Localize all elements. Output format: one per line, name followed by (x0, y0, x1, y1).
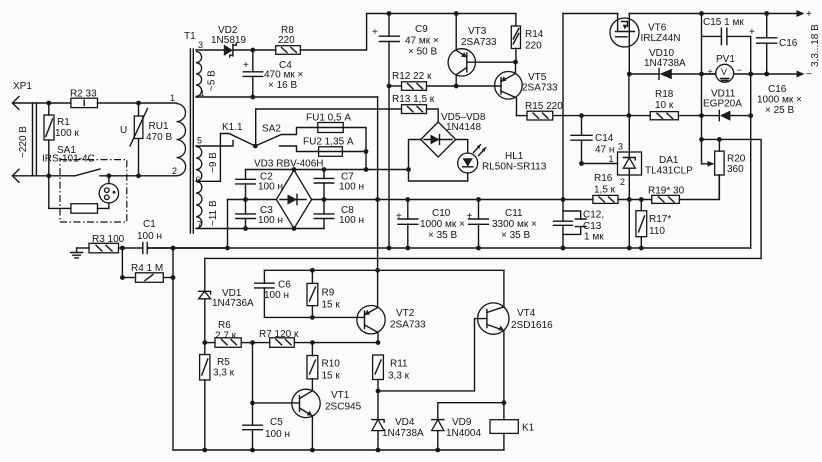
svg-text:100 н: 100 н (137, 231, 162, 242)
wire R18 left segment (629, 115, 650, 117)
svg-text:+: + (467, 211, 473, 222)
svg-text:2,7 к: 2,7 к (215, 331, 237, 342)
svg-text:~5 В: ~5 В (207, 70, 218, 91)
led HL1 (458, 145, 547, 173)
wire SA1 feed (49, 176, 71, 209)
svg-text:C15 1 мк: C15 1 мк (703, 17, 744, 28)
wire VD9 top link (438, 403, 504, 420)
svg-text:−: − (806, 69, 812, 80)
svg-text:360: 360 (727, 164, 744, 175)
node R6 R7 junction (250, 340, 255, 345)
svg-text:R12 22 к: R12 22 к (392, 71, 432, 82)
zener VD4 (372, 391, 424, 450)
resistor R5 (200, 355, 235, 451)
node SA2 common (253, 144, 258, 149)
transistor VT4 (478, 303, 554, 334)
node R17 bottom (639, 246, 644, 251)
resistor R12 (389, 71, 456, 90)
svg-text:VT6: VT6 (648, 23, 667, 34)
svg-text:1N5819: 1N5819 (211, 35, 246, 46)
svg-text:+: + (372, 27, 378, 38)
node VT3 collector junction (454, 84, 459, 89)
svg-text:C9: C9 (415, 24, 428, 35)
node VT1 emitter rail (310, 448, 315, 453)
svg-text:220: 220 (525, 41, 542, 52)
svg-text:1,5 к: 1,5 к (594, 185, 616, 196)
wire VT4 base link (378, 319, 487, 391)
capacitor C6 (255, 270, 292, 317)
svg-text:3300 мк ×: 3300 мк × (492, 219, 537, 230)
node C14 top (579, 113, 584, 118)
node R17 top (639, 197, 644, 202)
wire VD5 left vertex loop (409, 140, 468, 182)
svg-text:R5: R5 (217, 357, 230, 368)
regulator DA1 (609, 142, 694, 188)
node R7 right junction (376, 340, 381, 345)
wire pin3 row (196, 49, 224, 51)
node C9 R12 junction (387, 84, 392, 89)
resistor R4 (122, 263, 173, 282)
svg-text:IRLZ44N: IRLZ44N (641, 33, 681, 44)
rectifier VD3 (254, 159, 323, 229)
svg-text:100 н: 100 н (339, 215, 364, 226)
svg-text:R13 1,5 к: R13 1,5 к (392, 94, 435, 105)
svg-text:× 16 В: × 16 В (268, 80, 298, 91)
svg-text:× 25 В: × 25 В (765, 105, 795, 116)
node VD11 right (748, 113, 753, 118)
resistor R1 (44, 103, 79, 176)
resistor R8 (276, 14, 367, 55)
svg-text:R19* 30: R19* 30 (648, 186, 685, 197)
svg-text:C5: C5 (270, 417, 283, 428)
svg-text:100 н: 100 н (339, 182, 364, 193)
capacitor C13 (563, 211, 604, 243)
wire mains cord pair (33, 103, 37, 176)
node VD4 bottom rail (376, 448, 381, 453)
capacitor C2 (236, 170, 283, 200)
node DA1 pin2 on rail (627, 197, 632, 202)
wire C6R9 top row (264, 269, 504, 271)
node C3 bottom (243, 226, 248, 231)
svg-text:R15 220: R15 220 (525, 101, 563, 112)
wire DA1 pin2 riser (628, 175, 630, 248)
transformer T1 (170, 31, 219, 233)
wire x750 riser (750, 36, 752, 248)
node R10 top (310, 340, 315, 345)
svg-text:R18: R18 (655, 89, 674, 100)
wire top rail right segment (629, 13, 800, 15)
wire pin1 row (139, 102, 177, 104)
connector XP1 label (13, 81, 32, 92)
svg-text:1000 мк ×: 1000 мк × (757, 95, 802, 106)
node R6 left (202, 340, 207, 345)
svg-text:2: 2 (620, 177, 625, 187)
node R5 bottom rail (202, 448, 207, 453)
svg-text:R1: R1 (57, 117, 70, 128)
svg-text:XP1: XP1 (13, 81, 32, 92)
svg-text:~9 В: ~9 В (208, 152, 219, 173)
svg-text:100 н: 100 н (265, 429, 290, 440)
contact K1.1 (220, 122, 255, 181)
wire x204 left branch (204, 258, 206, 291)
wire DA1 pin1 (582, 163, 618, 165)
svg-text:C14: C14 (595, 133, 614, 144)
voltmeter PV1 (702, 54, 751, 82)
capacitor C14 (571, 116, 614, 164)
resistor R13 (392, 94, 438, 122)
node x227 on 248 (225, 246, 230, 251)
wire x701 riser (701, 36, 703, 139)
node RU1 bottom junction (136, 173, 141, 178)
capacitor C7 (314, 170, 364, 200)
svg-text:R14: R14 (525, 29, 544, 40)
node C16 top (764, 11, 769, 16)
svg-text:+: + (396, 211, 402, 222)
svg-text:470 мк ×: 470 мк × (264, 70, 303, 81)
resistor R15 (517, 101, 629, 120)
wire DA1 pin3 riser (628, 116, 630, 152)
rectifier VD5-VD8 (421, 112, 486, 157)
mosfet VT6 (610, 14, 681, 75)
svg-text:3,3 к: 3,3 к (213, 368, 235, 379)
svg-text:× 35 В: × 35 В (501, 230, 531, 241)
node C10 bottom (405, 246, 410, 251)
svg-text:C1: C1 (143, 219, 156, 230)
diode VD11 (703, 89, 751, 121)
svg-text:15 к: 15 к (322, 371, 341, 382)
resistor R6 (205, 320, 253, 347)
node C14 bottom junction (579, 161, 584, 166)
diode VD2 (211, 25, 276, 57)
svg-text:+: + (243, 60, 249, 71)
connector XP1 pin N arrow (12, 169, 19, 182)
node C7C8 mid (322, 197, 327, 202)
node R9 top (310, 268, 315, 273)
svg-text:C16: C16 (779, 38, 798, 49)
svg-text:R7 120 к: R7 120 к (259, 329, 299, 340)
svg-text:C6: C6 (278, 280, 291, 291)
resistor R16 (593, 173, 618, 203)
node SA1 lamp junction (107, 173, 112, 178)
wire R20 top row to right riser (702, 139, 762, 258)
svg-text:2SA733: 2SA733 (461, 37, 497, 48)
capacitor C4 (243, 50, 303, 97)
svg-text:RL50N-SR113: RL50N-SR113 (482, 162, 547, 173)
zener VD1 (199, 288, 254, 355)
wire N mains (13, 175, 75, 177)
svg-text:V: V (721, 67, 727, 77)
svg-text:+: + (806, 9, 812, 20)
resistor R3 (77, 234, 143, 253)
node R20 wiper riser (699, 137, 704, 142)
svg-text:K1.1: K1.1 (222, 122, 243, 133)
svg-text:R16: R16 (594, 173, 613, 184)
svg-text:R11: R11 (390, 359, 408, 370)
capacitor C12 (554, 200, 605, 249)
svg-text:1: 1 (609, 154, 614, 164)
connector XP1 pin L arrow (12, 97, 19, 110)
node R9 bottom (310, 315, 315, 320)
wire output plus arrow (797, 9, 813, 20)
svg-text:3: 3 (198, 40, 203, 50)
svg-text:VT3: VT3 (468, 26, 487, 37)
wire VD10 pin3 riser (628, 74, 630, 116)
wire C5 riser (252, 343, 254, 450)
node VD9 bottom rail (435, 448, 440, 453)
wire VT2 base row (264, 316, 364, 318)
svg-text:C10: C10 (432, 208, 451, 219)
svg-text:1N4004: 1N4004 (446, 428, 481, 439)
wire pin6 row (196, 180, 220, 182)
node DA1 pin2 rail248 (627, 246, 632, 251)
label output voltage (810, 24, 821, 67)
potentiometer R20 (702, 139, 746, 199)
resistor SA1 lamp ballast (71, 203, 109, 213)
svg-text:R20: R20 (727, 154, 746, 165)
wire SA2 lower contact (280, 146, 319, 152)
node R11 bottom junction (376, 389, 381, 394)
svg-text:1N4148: 1N4148 (446, 122, 481, 133)
capacitor C10 (396, 200, 465, 249)
resistor R18 (650, 89, 719, 120)
node FU output (364, 149, 369, 154)
svg-text:100 н: 100 н (258, 215, 283, 226)
transistor VT3 (448, 14, 515, 87)
switch SA2 (255, 124, 317, 147)
svg-text:VD3 RBV-406H: VD3 RBV-406H (254, 159, 323, 170)
svg-text:R9: R9 (322, 288, 335, 299)
svg-text:1N4736A: 1N4736A (212, 298, 254, 309)
svg-text:R10: R10 (322, 359, 341, 370)
svg-text:HL1: HL1 (505, 151, 524, 162)
svg-text:DA1: DA1 (659, 155, 679, 166)
svg-text:1N4738A: 1N4738A (644, 58, 686, 69)
wire AC rail y169 (246, 169, 409, 171)
svg-text:IRS-101-4C: IRS-101-4C (42, 154, 95, 165)
node R14 bottom (513, 60, 518, 65)
svg-text:VT5: VT5 (528, 72, 547, 83)
node R20 top (717, 137, 722, 142)
svg-text:VT4: VT4 (517, 308, 536, 319)
node VD3 bottom vertex (292, 226, 297, 231)
node AC rail to VD5 loop (406, 167, 411, 172)
svg-text:VT2: VT2 (396, 308, 415, 319)
capacitor C8 (314, 200, 364, 229)
relay K1 (490, 420, 535, 450)
capacitor C5 (243, 417, 290, 440)
capacitor C11 (467, 200, 538, 249)
wire VT4 collector riser (503, 270, 505, 307)
svg-text:2SA733: 2SA733 (390, 320, 426, 331)
svg-text:3: 3 (618, 142, 623, 152)
node SA1 left junction (46, 173, 51, 178)
resistor R10 (307, 343, 340, 391)
svg-text:RU1: RU1 (149, 121, 169, 132)
diode VD9 (432, 417, 482, 450)
node R1 top junction (46, 101, 51, 106)
wire pin4 row (196, 95, 378, 100)
fuse FU1 (306, 113, 366, 170)
svg-text:2: 2 (172, 166, 177, 176)
capacitor C1 (137, 219, 228, 254)
svg-text:+: + (708, 67, 713, 77)
fuse FU2 (303, 137, 366, 157)
node C5 bottom rail (250, 448, 255, 453)
svg-text:T1: T1 (184, 31, 196, 42)
svg-text:EGP20A: EGP20A (703, 99, 742, 110)
resistor R7 (253, 329, 379, 347)
svg-text:100 н: 100 н (258, 182, 283, 193)
wire VD5 right vertex to HL1 (456, 140, 468, 154)
node C4 top (250, 48, 255, 53)
wire x563 riser to top rail (562, 14, 564, 200)
node C10 top (405, 197, 410, 202)
resistor R2 (49, 89, 139, 108)
node FU riser on AC rail (364, 167, 369, 172)
svg-text:× 35 В: × 35 В (428, 230, 458, 241)
svg-text:+: + (749, 27, 755, 38)
node C15 left top (699, 11, 704, 16)
node C9 bottom rail (387, 246, 392, 251)
svg-text:10 к: 10 к (655, 100, 674, 111)
node C7 top (322, 167, 327, 172)
diode VD10 (629, 48, 715, 79)
resistor R14 (511, 14, 543, 63)
wire pin7 row (196, 228, 324, 230)
node VT6 source junction (627, 72, 632, 77)
wire top rail mid segment (563, 13, 618, 15)
node C16 bottom (764, 72, 769, 77)
svg-text:K1: K1 (522, 423, 535, 434)
node C2C3 mid (243, 197, 248, 202)
resistor R9 (307, 270, 340, 317)
node VT3 emitter rail (454, 11, 459, 16)
wire bottom rail (173, 449, 504, 451)
wire main riser x377 (377, 97, 379, 308)
svg-text:6: 6 (196, 175, 201, 185)
svg-text:2SC945: 2SC945 (325, 402, 362, 413)
svg-text:5: 5 (197, 136, 202, 146)
svg-text:SA2: SA2 (262, 124, 281, 135)
svg-text:100 к: 100 к (55, 128, 79, 139)
transistor VT5 (456, 62, 558, 116)
svg-text:R6: R6 (218, 320, 231, 331)
svg-text:100 н: 100 н (264, 290, 289, 301)
svg-text:15 к: 15 к (322, 300, 341, 311)
svg-text:~220 В: ~220 В (18, 126, 29, 158)
node PV1 left (699, 72, 704, 77)
lamp SA1 neon (99, 176, 118, 203)
wire mid rail y199 (228, 199, 593, 201)
resistor R17 (636, 200, 671, 249)
transistor VT1 (252, 389, 362, 450)
wire R4 right riser to bottom rail (171, 248, 176, 450)
svg-text:VD4: VD4 (395, 417, 415, 428)
svg-text:1N4738A: 1N4738A (382, 428, 424, 439)
wire R4 left riser (120, 248, 125, 280)
svg-text:FU2 1,35 А: FU2 1,35 А (303, 137, 354, 148)
capacitor C16 (749, 14, 802, 117)
svg-text:VD9: VD9 (452, 417, 472, 428)
svg-text:R17*: R17* (649, 214, 671, 225)
transistor VT2 (357, 306, 426, 343)
svg-text:470 В: 470 В (146, 132, 172, 143)
svg-text:R3 100: R3 100 (92, 234, 125, 245)
node K1 top junction (502, 400, 507, 405)
node R18 left (627, 113, 632, 118)
resistor R19 (648, 175, 719, 203)
svg-text:FU1 0,5 А: FU1 0,5 А (306, 113, 351, 124)
svg-text:R2 33: R2 33 (70, 89, 97, 100)
capacitor C15 (702, 14, 751, 45)
node x563 bottom (561, 246, 566, 251)
wire top rail left segment (367, 13, 516, 15)
wire output minus row (751, 69, 812, 80)
wire x227 riser (227, 200, 229, 249)
svg-text:VT1: VT1 (331, 390, 350, 401)
svg-text:1: 1 (170, 93, 175, 103)
svg-text:3,3 к: 3,3 к (388, 371, 410, 382)
ground (71, 248, 83, 258)
wire L mains (13, 102, 49, 104)
svg-text:× 50 В: × 50 В (408, 47, 438, 58)
switch SA1 contact blade (75, 169, 177, 176)
node C9 top (387, 11, 392, 16)
label ~220 V (18, 126, 29, 158)
svg-text:2SA733: 2SA733 (522, 83, 558, 94)
node PV1 right (748, 72, 753, 77)
node VD11 left (699, 113, 704, 118)
node VT1 base junction (250, 401, 255, 406)
svg-text:C16: C16 (768, 84, 787, 95)
node C12 bottom (561, 246, 566, 251)
wire return rail y258 (205, 257, 761, 259)
svg-text:1 мк: 1 мк (584, 232, 604, 243)
svg-text:TL431CLP: TL431CLP (645, 166, 693, 177)
node mid rail x377 (375, 197, 380, 202)
node C12 top (561, 197, 566, 202)
node R4 right riser top (171, 246, 176, 251)
svg-text:R4 1 М: R4 1 М (131, 263, 163, 274)
svg-text:47 мк ×: 47 мк × (405, 36, 439, 47)
svg-text:1000 мк ×: 1000 мк × (420, 219, 465, 230)
node RU1 top junction (136, 101, 141, 106)
wire pin5 row (196, 141, 233, 147)
svg-text:110: 110 (649, 226, 665, 237)
resistor R11 (373, 355, 410, 391)
wire VT4 emitter riser (503, 330, 505, 419)
svg-text:2SD1616: 2SD1616 (511, 320, 553, 331)
node C11 bottom (476, 246, 481, 251)
svg-text:U: U (120, 125, 127, 136)
svg-text:220: 220 (278, 35, 295, 46)
node C6R9 row x377 (375, 268, 380, 273)
svg-text:~11 В: ~11 В (208, 200, 219, 226)
wire SA2 common riser (256, 109, 402, 146)
varistor RU1 (120, 103, 172, 176)
svg-text:C11: C11 (505, 208, 523, 219)
svg-text:−: − (737, 65, 742, 75)
capacitor C9 (372, 14, 439, 249)
node R4 left riser top (120, 246, 125, 251)
svg-text:PV1: PV1 (716, 54, 735, 65)
wire R16-R19 segment (618, 199, 652, 201)
switch SA1 enclosure (42, 145, 127, 222)
svg-text:C13: C13 (583, 221, 602, 232)
svg-text:3,3...18 В: 3,3...18 В (810, 24, 821, 67)
svg-text:47 н: 47 н (595, 145, 614, 156)
node C11 top (476, 197, 481, 202)
